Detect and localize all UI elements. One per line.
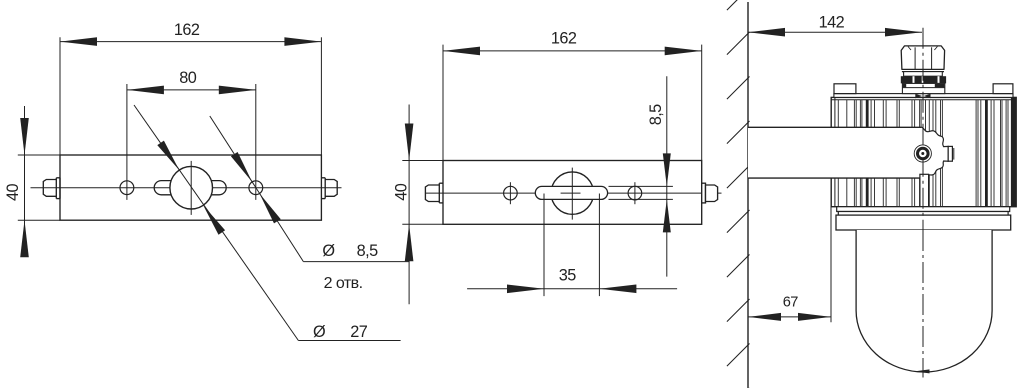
glass dome [856, 230, 992, 372]
dimension 162 (view 2) [443, 29, 702, 160]
centerline (view 2 horizontal axis) [426, 192, 722, 194]
housing top block right [993, 84, 1013, 94]
bracket plate (view 1 front face) [60, 155, 321, 220]
hole centerline right (ext line of dim 80) [255, 84, 257, 200]
dimension 8,5 (view 2 slot width) [647, 76, 671, 276]
axis tick at dome bottom [915, 369, 930, 373]
svg-text:2 отв.: 2 отв. [324, 275, 363, 292]
bracket plate (view 2) [443, 161, 702, 225]
centerline dash inside slot [561, 192, 581, 194]
pivot screw head [914, 145, 931, 162]
slot edge extension lines (for dim 8,5) [609, 186, 673, 199]
bolt stud left (view 2) [425, 183, 443, 203]
dimension 80 (view 1) [127, 69, 256, 94]
wall line (view 3) [747, 2, 749, 388]
svg-text:35: 35 [559, 267, 577, 285]
dimension 35 (view 2 slot length) [467, 194, 677, 297]
lamp axis centerline upper [922, 28, 924, 230]
hole 8.5 left (view 2) [504, 182, 518, 204]
bolt stud left (view 1) [43, 178, 60, 199]
dimension 40 (view 1) [4, 106, 60, 257]
pivot bracket scalloped plate [922, 127, 954, 178]
svg-text:Ø: Ø [322, 242, 335, 260]
svg-text:162: 162 [551, 29, 577, 47]
axis tick at housing top [915, 94, 922, 98]
cable gland on housing top [901, 46, 946, 94]
slot obround (view 1) [154, 181, 226, 195]
hole 8.5 right (view 2) [628, 182, 642, 204]
dimension 162 (view 1) [60, 21, 321, 155]
dimension 40 (view 2) [392, 105, 443, 305]
flange ring middle [838, 212, 1008, 216]
hole 27 vertical crosshair [190, 161, 192, 215]
wire / centerline (view 1 horizontal axis) [31, 187, 342, 189]
svg-text:27: 27 [350, 323, 368, 341]
bolt stud right (view 2) [702, 183, 718, 203]
flange ring upper [837, 207, 1010, 212]
svg-text:Ø: Ø [313, 323, 326, 341]
hole 27 vertical crosshair (view 2) [571, 168, 573, 220]
wall hatching [727, 0, 750, 388]
hole 27 circle (view 2) [551, 172, 593, 214]
mounting arm (wall bracket) [748, 127, 922, 178]
svg-text:8,5: 8,5 [647, 104, 665, 125]
bolt stud right (view 1) [321, 178, 337, 199]
housing top block left [834, 84, 856, 94]
housing top plate band [834, 94, 1013, 98]
svg-text:67: 67 [783, 294, 799, 310]
leader dia 8,5 2 holes (view 1 small holes) [210, 116, 409, 292]
bracket slot below pivot [920, 174, 929, 206]
lamp housing with cooling fins [831, 97, 1016, 206]
lamp axis centerline lower [922, 230, 924, 378]
slot obround (view 2) [535, 186, 607, 199]
svg-text:162: 162 [174, 21, 200, 39]
leader dia 27 (view 1 center hole) [134, 105, 401, 341]
hole centerline left (ext line of dim 80) [126, 84, 128, 200]
dimension 142 (view 3) [748, 13, 922, 36]
hole 8.5 right (view 1) [249, 181, 263, 195]
svg-text:40: 40 [4, 184, 22, 202]
flange ring lower (wide) [836, 215, 1011, 230]
svg-text:40: 40 [392, 183, 410, 201]
svg-text:142: 142 [819, 13, 845, 31]
dimension 67 (view 3) [748, 207, 831, 322]
svg-text:80: 80 [179, 69, 197, 87]
hole 27 circle (view 1) [170, 166, 213, 209]
hole 8.5 left (view 1) [120, 181, 134, 195]
svg-text:8,5: 8,5 [357, 242, 378, 260]
